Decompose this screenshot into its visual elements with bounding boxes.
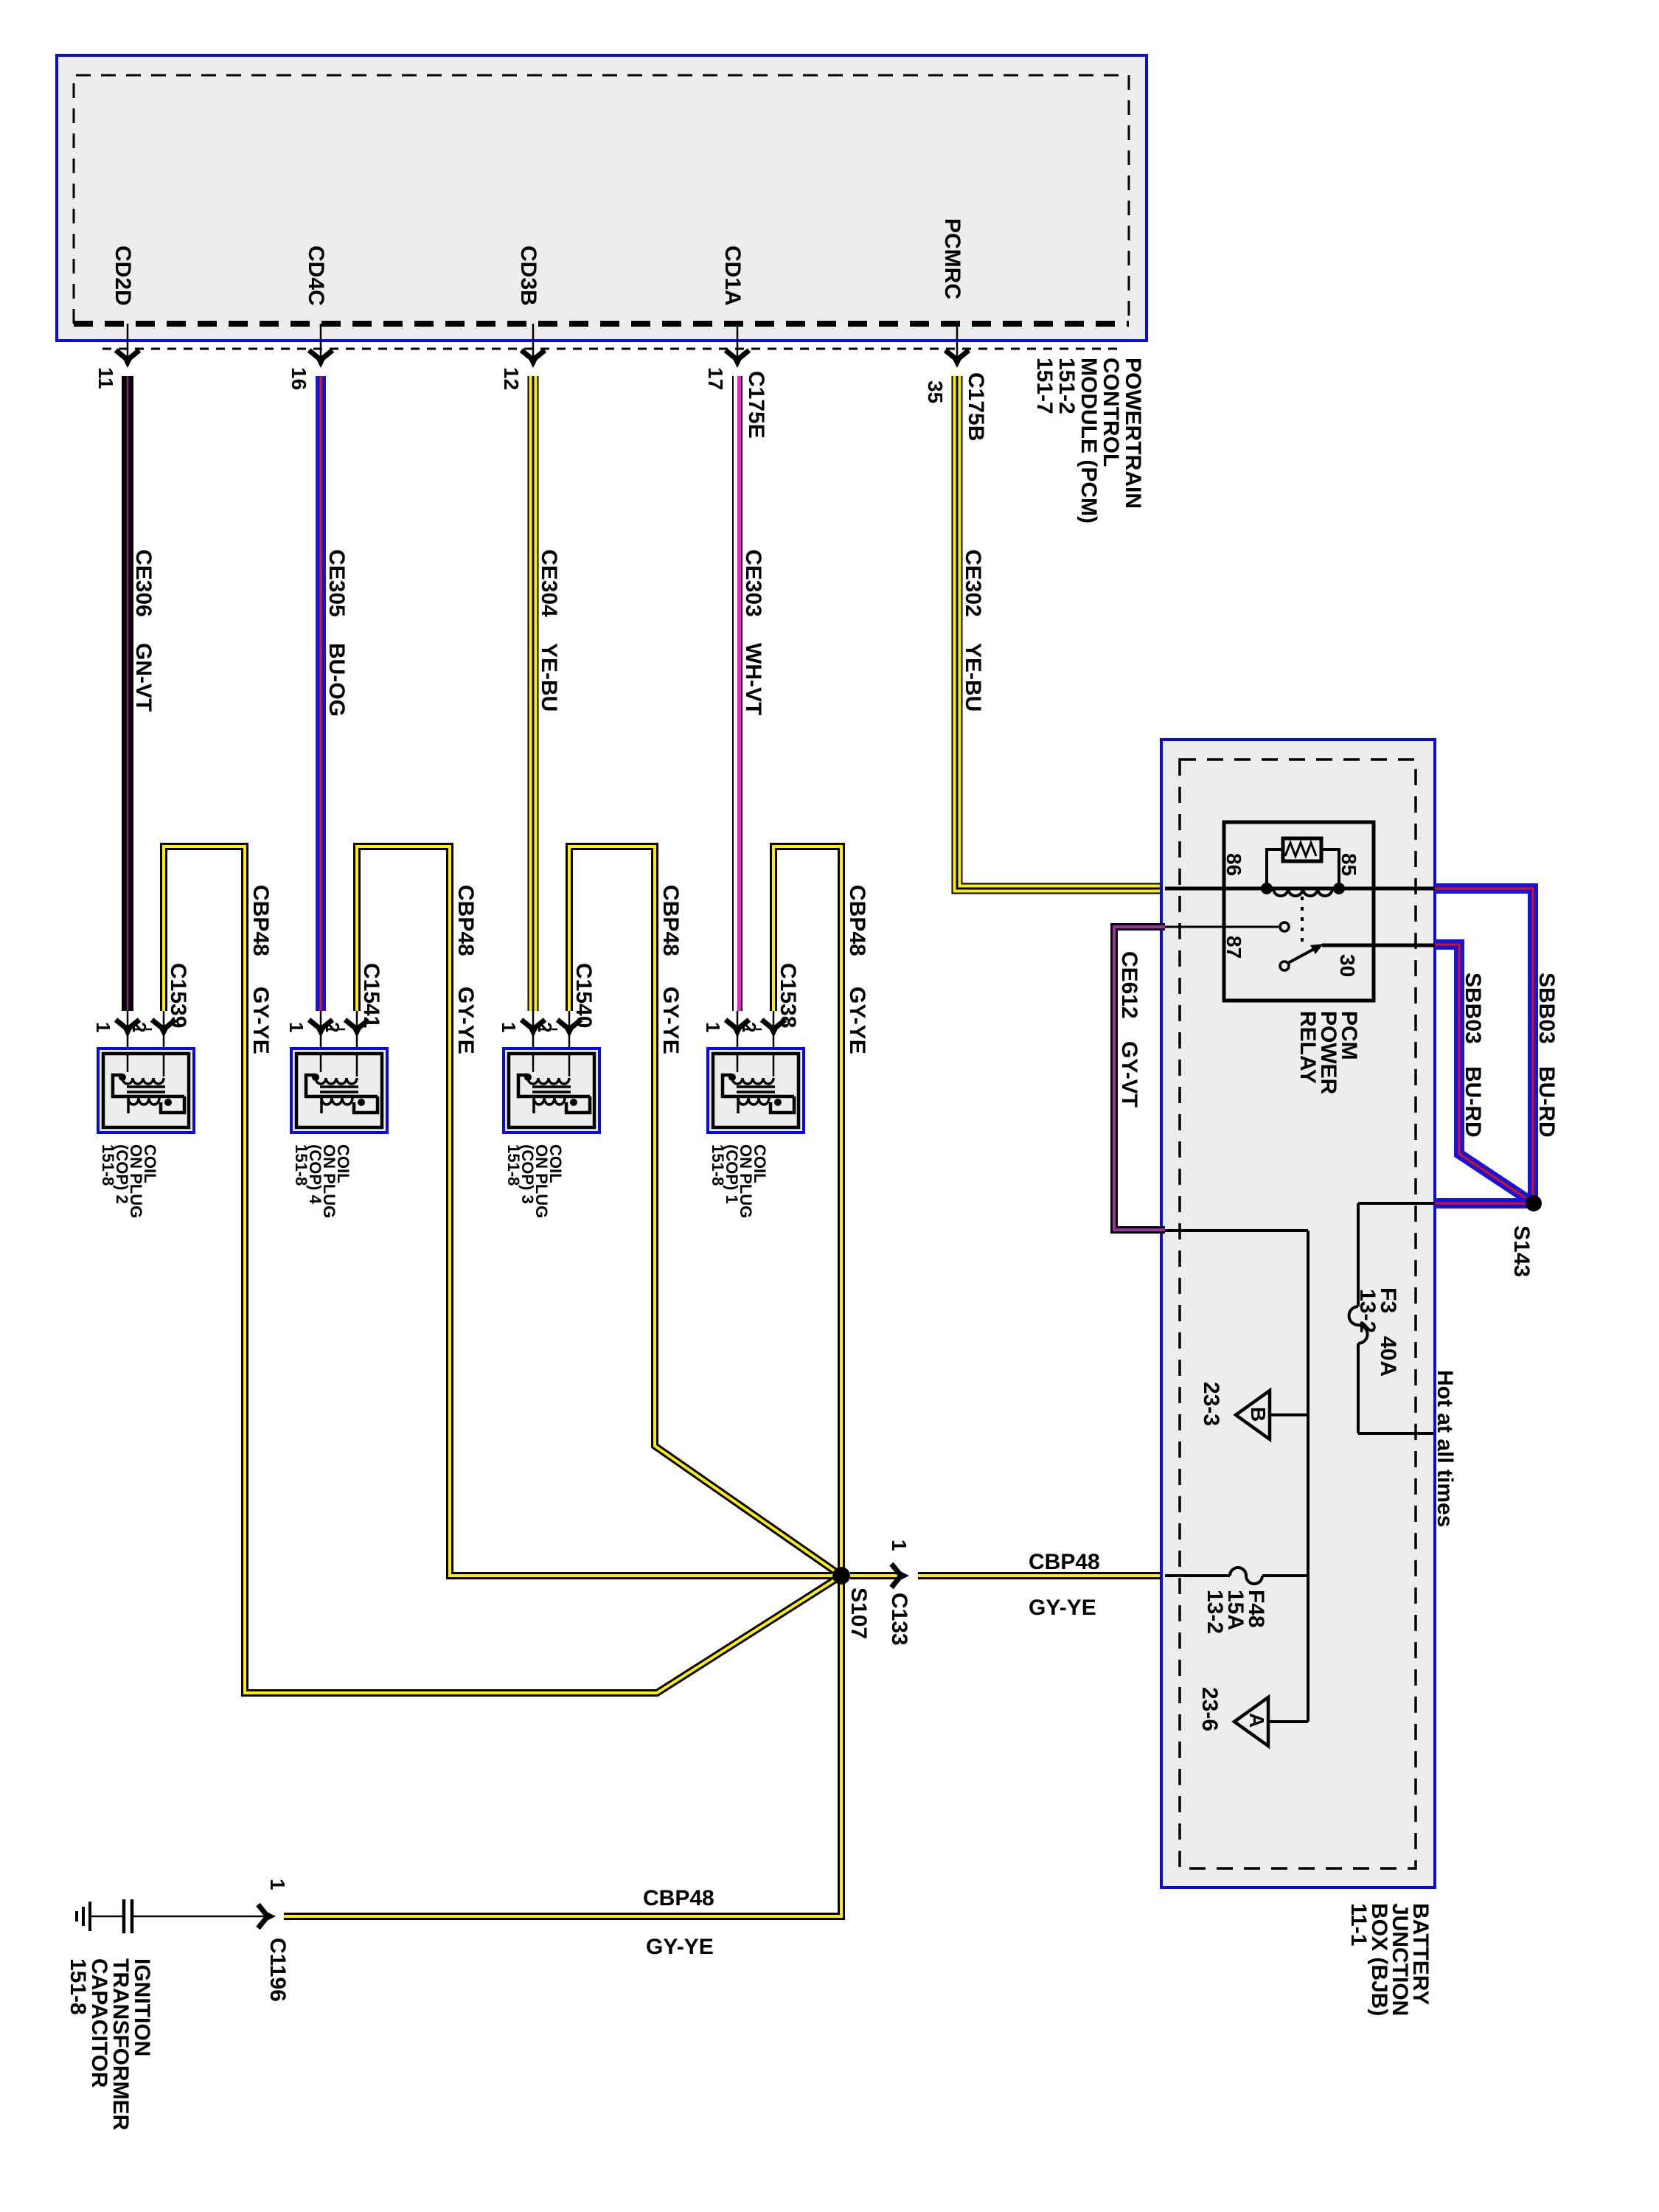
connector label C175E (744, 371, 768, 439)
wire label CBP48 GY-YE (run 2) (248, 885, 273, 1054)
ground symbol (77, 1902, 90, 1931)
connector arrows pins 1,2 of C1540 (521, 1011, 581, 1054)
PCM pin stub wires (128, 324, 957, 366)
svg-text:SBB03: SBB03 (1461, 973, 1485, 1044)
svg-text:GY-YE: GY-YE (453, 987, 478, 1054)
connector arrow pin 16 (CD4C) (309, 350, 333, 368)
wire label CE304 YE-BU (537, 549, 561, 712)
svg-text:11: 11 (94, 367, 117, 389)
relay actuation dotted line (1301, 897, 1304, 946)
pin labels 1 2 and connector C1540 (498, 963, 596, 1032)
coil on plug (COP) 3 box (504, 1048, 599, 1133)
coil label COIL ON PLUG (COP) 3 (504, 1144, 565, 1218)
svg-text:23-6: 23-6 (1197, 1687, 1222, 1731)
svg-text:23-3: 23-3 (1199, 1382, 1223, 1426)
svg-text:C1196: C1196 (265, 1938, 290, 2002)
svg-text:CE304: CE304 (537, 549, 561, 617)
coil on plug (COP) 2 box (98, 1048, 194, 1133)
wire CE305 BU-OG (blue/orange) pin 16 (316, 376, 326, 1011)
svg-text:CBP48: CBP48 (845, 885, 869, 956)
node BJB label (1346, 1903, 1433, 2016)
svg-text:151-8: 151-8 (66, 1958, 90, 2015)
resistor leads and junction dots (1261, 849, 1345, 894)
svg-text:151-8: 151-8 (709, 1144, 727, 1186)
connector label C175B (964, 372, 988, 441)
svg-text:151-8: 151-8 (504, 1144, 523, 1186)
resistor (relay suppression) (1283, 838, 1321, 861)
pin labels 1 2 and connector C1538 (702, 963, 800, 1032)
battery junction box (BJB) (1161, 740, 1435, 1888)
wire CBP48 GY-YE from coil 2 pin 2 to splice S107 (164, 846, 841, 1693)
svg-text:13-2: 13-2 (1203, 1590, 1227, 1634)
svg-text:12: 12 (500, 367, 523, 390)
svg-text:YE-BU: YE-BU (537, 643, 561, 712)
svg-text:16: 16 (288, 367, 310, 390)
svg-text:S143: S143 (1509, 1225, 1534, 1277)
ignition transformer capacitor label (66, 1958, 154, 2131)
svg-text:1: 1 (888, 1540, 911, 1551)
fuse F48 labels (1203, 1590, 1268, 1634)
node PCM pin labels inside box (111, 218, 964, 306)
node C133 label and pin 1 (887, 1540, 911, 1646)
svg-text:B: B (1247, 1407, 1270, 1422)
svg-text:RELAY: RELAY (1295, 1011, 1320, 1084)
wire labels SBB03 BU-RD (1461, 973, 1559, 1138)
svg-text:GN-VT: GN-VT (131, 643, 156, 712)
wire label CBP48 GY-YE (run 3) (658, 885, 683, 1054)
wire label CBP48 GY-YE (run 4) (453, 885, 478, 1054)
svg-text:Hot at all times: Hot at all times (1433, 1370, 1457, 1527)
svg-text:YE-BU: YE-BU (961, 643, 985, 712)
wire CBP48 GY-YE from C133 to BJB fuse F48 (918, 1572, 1164, 1579)
svg-text:CD4C: CD4C (304, 246, 328, 306)
PCM description text (1032, 358, 1145, 524)
node S143 label (1509, 1225, 1534, 1277)
svg-text:POWERTRAIN: POWERTRAIN (1121, 358, 1145, 509)
svg-text:1: 1 (498, 1022, 520, 1032)
svg-text:WH-VT: WH-VT (741, 643, 765, 715)
pin labels 1 2 and connector C1541 (285, 963, 383, 1032)
svg-text:C1540: C1540 (571, 963, 596, 1028)
wire label CE303 WH-VT (741, 549, 765, 715)
svg-text:A: A (1245, 1713, 1268, 1728)
svg-text:MODULE (PCM): MODULE (PCM) (1077, 358, 1101, 524)
svg-text:S107: S107 (846, 1587, 871, 1639)
svg-text:151-7: 151-7 (1032, 358, 1057, 414)
PCM module box (POWERTRAIN CONTROL MODULE) (57, 55, 1147, 341)
svg-text:86: 86 (1222, 853, 1245, 876)
svg-text:30: 30 (1336, 954, 1359, 977)
wire label CE612 GY-VT (1117, 951, 1141, 1107)
svg-text:CE305: CE305 (324, 549, 349, 617)
fuse F3 40A circuit from S143 (1349, 1203, 1436, 1433)
svg-text:87: 87 (1222, 936, 1245, 959)
svg-text:CONTROL: CONTROL (1099, 358, 1123, 467)
svg-text:PCMRC: PCMRC (940, 218, 964, 299)
svg-text:CBP48: CBP48 (248, 885, 273, 956)
svg-text:CE303: CE303 (741, 549, 765, 617)
pin number labels 11 16 12 17 35 (94, 367, 947, 403)
node C1196 label and pin 1 (265, 1879, 290, 2002)
wire label CBP48 GY-YE at C133 (1029, 1550, 1100, 1620)
splice S107 (832, 1567, 850, 1585)
svg-text:85: 85 (1338, 853, 1360, 876)
svg-text:CBP48: CBP48 (658, 885, 683, 956)
pin labels 1 2 and connector C1539 (92, 963, 190, 1032)
svg-text:GY-YE: GY-YE (248, 987, 273, 1054)
svg-text:C1541: C1541 (359, 963, 383, 1028)
svg-text:13-2: 13-2 (1355, 1289, 1380, 1333)
connector arrow pin 11 (CD2D) (116, 350, 139, 368)
svg-text:2: 2 (738, 1022, 760, 1032)
capacitor C (ignition transformer capacitor) (91, 1899, 267, 1933)
coil on plug (COP) 4 box (291, 1048, 387, 1133)
wire CE612 continuation inside BJB (1165, 1229, 1308, 1232)
Hot at all times label (1433, 1370, 1457, 1527)
svg-text:151-8: 151-8 (292, 1144, 310, 1186)
wire label CE305 BU-OG (324, 549, 349, 717)
coil on plug (COP) 1 box (708, 1048, 804, 1133)
svg-text:151-8: 151-8 (99, 1144, 117, 1186)
svg-text:1: 1 (285, 1022, 307, 1032)
relay switch arm (pin 30) (1280, 944, 1324, 970)
svg-text:CD3B: CD3B (516, 246, 540, 306)
wire CBP48 GY-YE from coil 3 pin 2 to splice S107 (569, 846, 841, 1576)
svg-text:C1539: C1539 (166, 963, 190, 1028)
svg-text:BU-RD: BU-RD (1461, 1066, 1485, 1138)
svg-text:SBB03: SBB03 (1534, 973, 1559, 1044)
wire SBB03 BU-RD from relay pin 30 to S143 (1435, 945, 1534, 1203)
off-page reference triangle B 23-3 (1236, 1391, 1308, 1439)
svg-text:CD1A: CD1A (720, 246, 745, 306)
connector arrows pins 1,2 of C1539 (116, 1011, 175, 1054)
svg-text:CE612: CE612 (1117, 951, 1141, 1019)
wire BU-RD from S143 into BJB (1435, 1198, 1534, 1208)
fuse F3 labels (1355, 1287, 1400, 1377)
svg-text:40A: 40A (1376, 1336, 1400, 1377)
splice S143 (1526, 1195, 1542, 1211)
wire label CBP48 GY-YE bottom (643, 1886, 714, 1959)
wire short segment S107 to C133 (850, 1572, 901, 1579)
off-page reference triangle A 23-6 (1234, 1697, 1308, 1746)
connector arrow C133 pin 1 (891, 1564, 909, 1587)
relay pin labels 86 85 87 30 (1222, 853, 1360, 977)
wire SBB03 BU-RD from relay coil line to S143 (1435, 888, 1533, 1203)
wire CBP48 GY-YE from coil 1 pin 2 to splice S107 (773, 846, 841, 1576)
coil label COIL ON PLUG (COP) 1 (709, 1144, 769, 1218)
svg-text:17: 17 (704, 367, 727, 390)
svg-text:CE306: CE306 (131, 549, 156, 617)
wire CE303 WH-VT (white/violet) pin 17 (737, 376, 740, 1011)
wire CBP48 GY-YE from coil 4 pin 2 to splice S107 (357, 846, 832, 1576)
node S107 label (846, 1587, 871, 1639)
wire CBP48 GY-YE from S107 down to C1196 capacitor wire (284, 1576, 841, 1916)
svg-text:11-1: 11-1 (1346, 1903, 1371, 1946)
svg-text:GY-VT: GY-VT (1117, 1041, 1141, 1107)
svg-text:C1538: C1538 (776, 963, 800, 1028)
connector arrows pins 1,2 of C1538 (726, 1011, 785, 1054)
svg-text:1: 1 (702, 1022, 724, 1032)
svg-text:C175B: C175B (964, 372, 988, 441)
wire CE302 YE-BU (yellow/blue) pin 35 to relay (957, 376, 1165, 888)
wire CE306 GN-VT (black/violet) pin 11 (122, 376, 133, 1011)
svg-text:GY-YE: GY-YE (658, 987, 683, 1054)
svg-text:GY-YE: GY-YE (1029, 1596, 1096, 1620)
svg-text:CBP48: CBP48 (453, 885, 478, 956)
node PCM POWER RELAY label (1295, 1011, 1361, 1095)
svg-text:BU-RD: BU-RD (1534, 1066, 1559, 1138)
PCM power relay box (1224, 822, 1374, 1001)
svg-text:CE302: CE302 (961, 549, 985, 617)
svg-text:2: 2 (128, 1022, 150, 1032)
svg-text:2: 2 (321, 1022, 344, 1032)
svg-text:151-2: 151-2 (1054, 358, 1079, 414)
svg-text:GY-YE: GY-YE (845, 987, 869, 1054)
connector arrow C1196 pin 1 (258, 1905, 276, 1928)
svg-text:BU-OG: BU-OG (324, 643, 349, 717)
relay coil supply line (pin 86-85) (1165, 887, 1435, 891)
triangle B labels (1199, 1382, 1270, 1426)
connector arrow pin 12 (CD3B) (521, 350, 545, 368)
wire label CE302 YE-BU (961, 549, 985, 712)
svg-text:CBP48: CBP48 (1029, 1550, 1100, 1574)
relay coil (inductor) (1273, 888, 1332, 896)
wire label CE306 GN-VT (131, 549, 156, 712)
fuse F48 15A on CBP48 line (1165, 1568, 1308, 1584)
relay pin 87 terminal and line (1165, 922, 1289, 931)
wire CE612 GY-VT bracket from relay pin 87 (1114, 927, 1165, 1230)
connector arrow pin 35 (PCMRC) (945, 350, 969, 368)
svg-text:1: 1 (266, 1879, 289, 1891)
connector arrow pin 17 (CD1A) (726, 350, 749, 368)
svg-text:CBP48: CBP48 (643, 1886, 714, 1910)
svg-text:C175E: C175E (744, 371, 768, 439)
relay pin 30 line (1322, 944, 1435, 947)
wire CE304 YE-BU (yellow/blue) pin 12 (528, 376, 539, 1011)
svg-text:CD2D: CD2D (111, 246, 135, 306)
coil label COIL ON PLUG (COP) 2 (99, 1144, 159, 1218)
svg-text:GY-YE: GY-YE (646, 1935, 714, 1959)
svg-text:2: 2 (534, 1022, 556, 1032)
wire label CBP48 GY-YE (run 1) (845, 885, 869, 1054)
PCM connector dashed line (C175E/C175B) (102, 348, 1121, 350)
connector arrows pins 1,2 of C1541 (309, 1011, 369, 1054)
svg-text:1: 1 (92, 1022, 114, 1032)
coil label COIL ON PLUG (COP) 4 (292, 1144, 352, 1218)
svg-text:C133: C133 (887, 1593, 911, 1646)
triangle A labels (1197, 1687, 1268, 1731)
internal BJB bus wire (vertical) (1307, 1231, 1310, 1722)
svg-text:35: 35 (924, 380, 947, 403)
